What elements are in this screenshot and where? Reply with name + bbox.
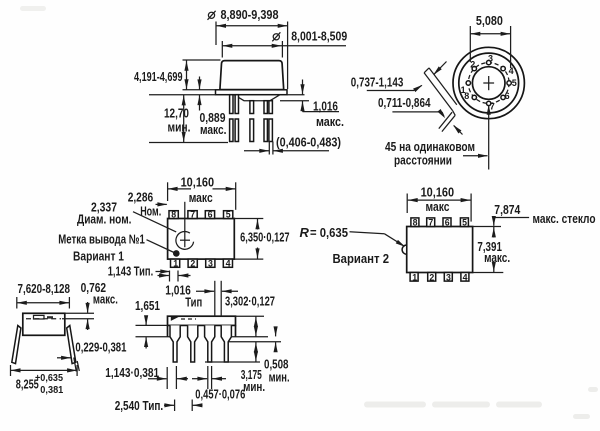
pin square 7 bbox=[427, 218, 435, 227]
index circle centerline bbox=[184, 202, 186, 247]
svg-text:2: 2 bbox=[429, 272, 434, 282]
lead R2 lower bbox=[269, 119, 273, 142]
phi symbol 2 bbox=[272, 32, 280, 41]
svg-text:7,874: 7,874 bbox=[494, 202, 521, 217]
pin square 3 bbox=[444, 273, 452, 282]
body variant 1 bbox=[168, 219, 235, 260]
lead tips extension line bbox=[149, 142, 228, 144]
flange bottom extension line bbox=[149, 94, 216, 96]
can body bbox=[220, 61, 284, 90]
dimension 0,508 arrows bbox=[275, 327, 277, 337]
svg-text:4: 4 bbox=[226, 259, 231, 269]
key tab narrow strip bbox=[439, 112, 455, 131]
svg-text:1,143 Тип.: 1,143 Тип. bbox=[108, 264, 154, 279]
svg-text:6: 6 bbox=[208, 210, 213, 220]
svg-text:3: 3 bbox=[446, 272, 451, 282]
pin square 6 bbox=[443, 218, 451, 227]
pin square 4 bbox=[223, 259, 232, 267]
svg-text:6: 6 bbox=[445, 218, 450, 228]
svg-text:4: 4 bbox=[463, 272, 468, 282]
dimension 8,001-8,509 line bbox=[222, 45, 346, 47]
leader to pin 7 bbox=[463, 155, 488, 157]
pin 1 mark dot bbox=[173, 250, 180, 257]
corner notch radius bump bbox=[402, 245, 407, 254]
pin 3 bbox=[487, 60, 491, 64]
svg-text:8: 8 bbox=[171, 210, 176, 220]
svg-text:4,191-4,699: 4,191-4,699 bbox=[134, 69, 183, 84]
leader to pin1 mark dot bbox=[147, 240, 175, 253]
svg-text:3,302·0,127: 3,302·0,127 bbox=[225, 294, 275, 309]
pin square 5 bbox=[460, 218, 468, 227]
extension lines dim1 bbox=[215, 22, 217, 46]
body top extension bbox=[473, 226, 501, 228]
svg-text:Метка вывода №1: Метка вывода №1 bbox=[58, 232, 145, 247]
dimension 4,191-4,699 bbox=[186, 60, 188, 90]
svg-text:макс: макс bbox=[426, 199, 450, 214]
pin square 1 bbox=[410, 273, 418, 282]
svg-text:2: 2 bbox=[190, 259, 195, 269]
lead L1 upper bbox=[230, 95, 233, 114]
svg-text:0,737-1,143: 0,737-1,143 bbox=[351, 75, 404, 90]
svg-text:7: 7 bbox=[190, 210, 195, 220]
svg-text:1: 1 bbox=[412, 272, 417, 282]
pin 2 bbox=[472, 66, 476, 70]
flange top extension line bbox=[183, 89, 216, 91]
lead C upper bbox=[250, 101, 254, 114]
svg-text:1,016: 1,016 bbox=[313, 98, 338, 113]
pin pitch dashed circle bbox=[468, 63, 509, 104]
svg-text:= 0,635: = 0,635 bbox=[310, 225, 348, 240]
dimension 0,457-0,076 bbox=[207, 366, 209, 389]
lead L2 upper bbox=[235, 95, 238, 114]
pin 6 bbox=[501, 95, 505, 99]
pin 5 bbox=[507, 81, 511, 85]
svg-text:0,229-0,381: 0,229-0,381 bbox=[75, 340, 126, 355]
dimension 5,080 bbox=[470, 33, 510, 35]
key tab wide strip bbox=[424, 68, 457, 111]
glass seal bump bbox=[234, 95, 280, 101]
dimension 6,350-0,127 bbox=[234, 218, 263, 220]
lead L2 lower bbox=[235, 119, 238, 142]
dimension 12,70 min bbox=[183, 95, 185, 143]
svg-text:7: 7 bbox=[428, 218, 433, 228]
svg-text:макс.: макс. bbox=[484, 250, 510, 265]
svg-text:3: 3 bbox=[488, 53, 493, 63]
lead L1 lower bbox=[230, 119, 233, 142]
svg-text:макс. стекло: макс. стекло bbox=[533, 211, 596, 226]
dimension 1,016 pin width ticks bbox=[169, 271, 171, 282]
pin 8 bbox=[472, 95, 476, 99]
dimension 7,391 макс. bbox=[493, 227, 495, 238]
pin square 8 bbox=[411, 218, 419, 227]
svg-text:8,890-9,398: 8,890-9,398 bbox=[221, 7, 279, 22]
svg-text:7,620-8,128: 7,620-8,128 bbox=[18, 281, 71, 296]
svg-text:1,651: 1,651 bbox=[135, 298, 160, 313]
svg-text:R: R bbox=[300, 225, 310, 240]
svg-text:расстоянии: расстоянии bbox=[394, 152, 452, 167]
leader to index circle bbox=[133, 212, 176, 232]
svg-text:2,286: 2,286 bbox=[128, 189, 154, 204]
svg-text:2: 2 bbox=[470, 59, 475, 69]
svg-text:12,70: 12,70 bbox=[164, 105, 189, 120]
extension lines dim2 bbox=[221, 41, 223, 58]
svg-text:7: 7 bbox=[490, 101, 495, 111]
svg-text:10,160: 10,160 bbox=[181, 174, 215, 189]
svg-text:8,001-8,509: 8,001-8,509 bbox=[291, 29, 347, 44]
svg-text:+0,635: +0,635 bbox=[35, 372, 63, 384]
pin 1 bbox=[466, 81, 470, 85]
dimension 8,890-9,398 line bbox=[216, 25, 288, 27]
svg-text:макс.: макс. bbox=[316, 114, 344, 129]
phi symbol 1 bbox=[208, 11, 216, 20]
svg-text:6: 6 bbox=[505, 91, 510, 101]
lead R2 upper bbox=[269, 101, 273, 114]
pin square 8 bbox=[169, 211, 178, 219]
svg-text:макс: макс bbox=[189, 190, 213, 205]
svg-text:5: 5 bbox=[226, 210, 231, 220]
svg-text:0,381: 0,381 bbox=[40, 384, 63, 396]
svg-text:Вариант 1: Вариант 1 bbox=[73, 248, 124, 263]
svg-text:8: 8 bbox=[413, 218, 418, 228]
svg-text:Тип: Тип bbox=[185, 294, 202, 309]
svg-text:мин.: мин. bbox=[243, 379, 265, 394]
lead 2 (side view) bbox=[188, 325, 198, 362]
pin 4 bbox=[501, 66, 505, 70]
dimension 1,016 max (right of flange) bbox=[287, 94, 305, 96]
lead 4 (side view) bbox=[221, 325, 231, 362]
svg-text:2,540 Тип.: 2,540 Тип. bbox=[115, 398, 164, 413]
pin square 7 bbox=[188, 211, 197, 219]
pin square 6 bbox=[205, 211, 214, 219]
svg-text:Вариант 2: Вариант 2 bbox=[333, 251, 390, 266]
can body inner circle bbox=[472, 67, 505, 100]
outer flange circle bbox=[453, 47, 524, 118]
dimension (0,406-0,483) bbox=[268, 142, 270, 155]
pin square 2 bbox=[188, 259, 197, 267]
lead C lower bbox=[250, 119, 254, 142]
svg-text:3: 3 bbox=[208, 259, 213, 269]
body bottom extension bbox=[473, 272, 504, 274]
svg-text:6,350·0,127: 6,350·0,127 bbox=[240, 230, 290, 245]
pin square 1 bbox=[171, 259, 180, 267]
svg-text:мин.: мин. bbox=[269, 370, 290, 385]
svg-text:8: 8 bbox=[464, 91, 469, 101]
body variant 2 bbox=[407, 227, 473, 273]
svg-text:(0,406-0,483): (0,406-0,483) bbox=[276, 134, 341, 149]
svg-text:5,080: 5,080 bbox=[476, 13, 503, 28]
lead R1 lower bbox=[264, 119, 267, 142]
seam detail rectangles bbox=[34, 315, 45, 319]
dimension 8,255 +0,635 -0,381 bbox=[11, 369, 78, 371]
dimension 0,889 max arrows bbox=[199, 77, 201, 90]
pin square 3 bbox=[206, 259, 215, 267]
svg-text:Диам. ном.: Диам. ном. bbox=[77, 212, 132, 227]
center cross bbox=[483, 82, 494, 84]
lead 3 (side view) bbox=[205, 325, 215, 362]
pin 7 bbox=[487, 101, 491, 105]
pin square 2 bbox=[428, 273, 436, 282]
right side extension lines bbox=[236, 315, 265, 317]
left lead bbox=[12, 326, 21, 364]
can flange bbox=[216, 90, 288, 95]
dimension 3,175 vertical bbox=[255, 342, 257, 362]
dimension 10,160 макс (variant 2) bbox=[408, 199, 471, 201]
lead R1 upper bbox=[264, 101, 267, 114]
svg-text:макс.: макс. bbox=[200, 122, 227, 137]
pin square 4 bbox=[461, 273, 469, 282]
dimension 1,016 Тип (lead gap) extension lines bbox=[214, 281, 216, 316]
svg-text:5: 5 bbox=[512, 78, 517, 88]
pin1 chamfer mark bbox=[171, 317, 179, 321]
dimension 10,160 макс (variant 1) bbox=[168, 188, 191, 190]
flange inner circle bbox=[459, 53, 519, 113]
pin square 5 bbox=[224, 211, 233, 219]
svg-text:мин.: мин. bbox=[168, 119, 191, 134]
svg-text:0,711-0,864: 0,711-0,864 bbox=[378, 95, 431, 110]
body end view bbox=[23, 313, 65, 335]
lead 1 (side view) bbox=[170, 325, 180, 362]
svg-text:5: 5 bbox=[462, 218, 467, 228]
svg-text:1: 1 bbox=[173, 259, 178, 269]
mold seam dash-dot line bbox=[26, 318, 61, 320]
svg-text:10,160: 10,160 bbox=[421, 185, 455, 200]
svg-text:0,457·0,076: 0,457·0,076 bbox=[195, 387, 245, 402]
index circle 2,337 bbox=[176, 231, 194, 249]
right lead bbox=[67, 326, 76, 364]
svg-text:макс.: макс. bbox=[93, 292, 118, 307]
dimension 3,302 vertical bbox=[255, 316, 257, 337]
body side edges extended bbox=[167, 325, 169, 336]
svg-text:1,143·0,381: 1,143·0,381 bbox=[105, 365, 159, 380]
body bar bbox=[168, 316, 236, 325]
